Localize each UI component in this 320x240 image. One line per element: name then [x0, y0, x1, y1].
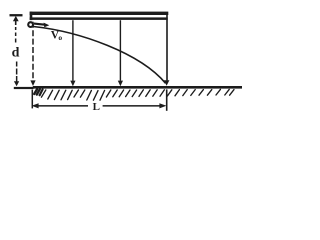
right edge arrowhead at ground — [164, 80, 170, 86]
dimension d down arrowhead — [14, 81, 19, 86]
drop line 2 arrowhead — [70, 81, 75, 87]
L dimension right boundary bar — [166, 89, 168, 110]
L dimension right arrowhead — [159, 103, 166, 108]
ground line — [33, 86, 242, 89]
platform left end cap — [30, 12, 33, 21]
velocity vector V0 arrowhead — [44, 23, 50, 28]
svg-text:o: o — [58, 33, 62, 42]
dimension d up arrowhead — [13, 16, 19, 21]
L dimension line left segment — [37, 105, 88, 107]
L dimension line right segment — [103, 105, 160, 107]
drop line 2 — [72, 20, 74, 81]
drop line 1 (dashed, under table edge) — [32, 22, 34, 81]
label d — [12, 46, 20, 61]
ground hatching — [34, 89, 234, 100]
drop line 3 arrowhead — [118, 81, 123, 87]
label V0 — [51, 30, 63, 43]
label L — [93, 101, 100, 113]
dimension d top bar — [10, 14, 23, 16]
trajectory curve — [33, 27, 165, 84]
ball at table edge — [28, 22, 33, 27]
L dimension left arrowhead — [32, 103, 39, 108]
platform top line — [30, 12, 169, 15]
drop line 1 arrowhead — [30, 80, 35, 86]
dimension d upper shaft (dashed) — [15, 21, 17, 26]
right edge vertical line — [166, 12, 168, 80]
drop line 3 — [119, 20, 121, 81]
dimension d bottom bar — [14, 87, 34, 89]
svg-text:L: L — [93, 101, 100, 113]
dimension d lower shaft — [16, 62, 18, 67]
velocity vector V0 shaft — [34, 24, 45, 25]
svg-text:d: d — [12, 46, 20, 61]
L dimension left boundary bar — [31, 90, 33, 109]
platform bottom line — [30, 17, 168, 20]
